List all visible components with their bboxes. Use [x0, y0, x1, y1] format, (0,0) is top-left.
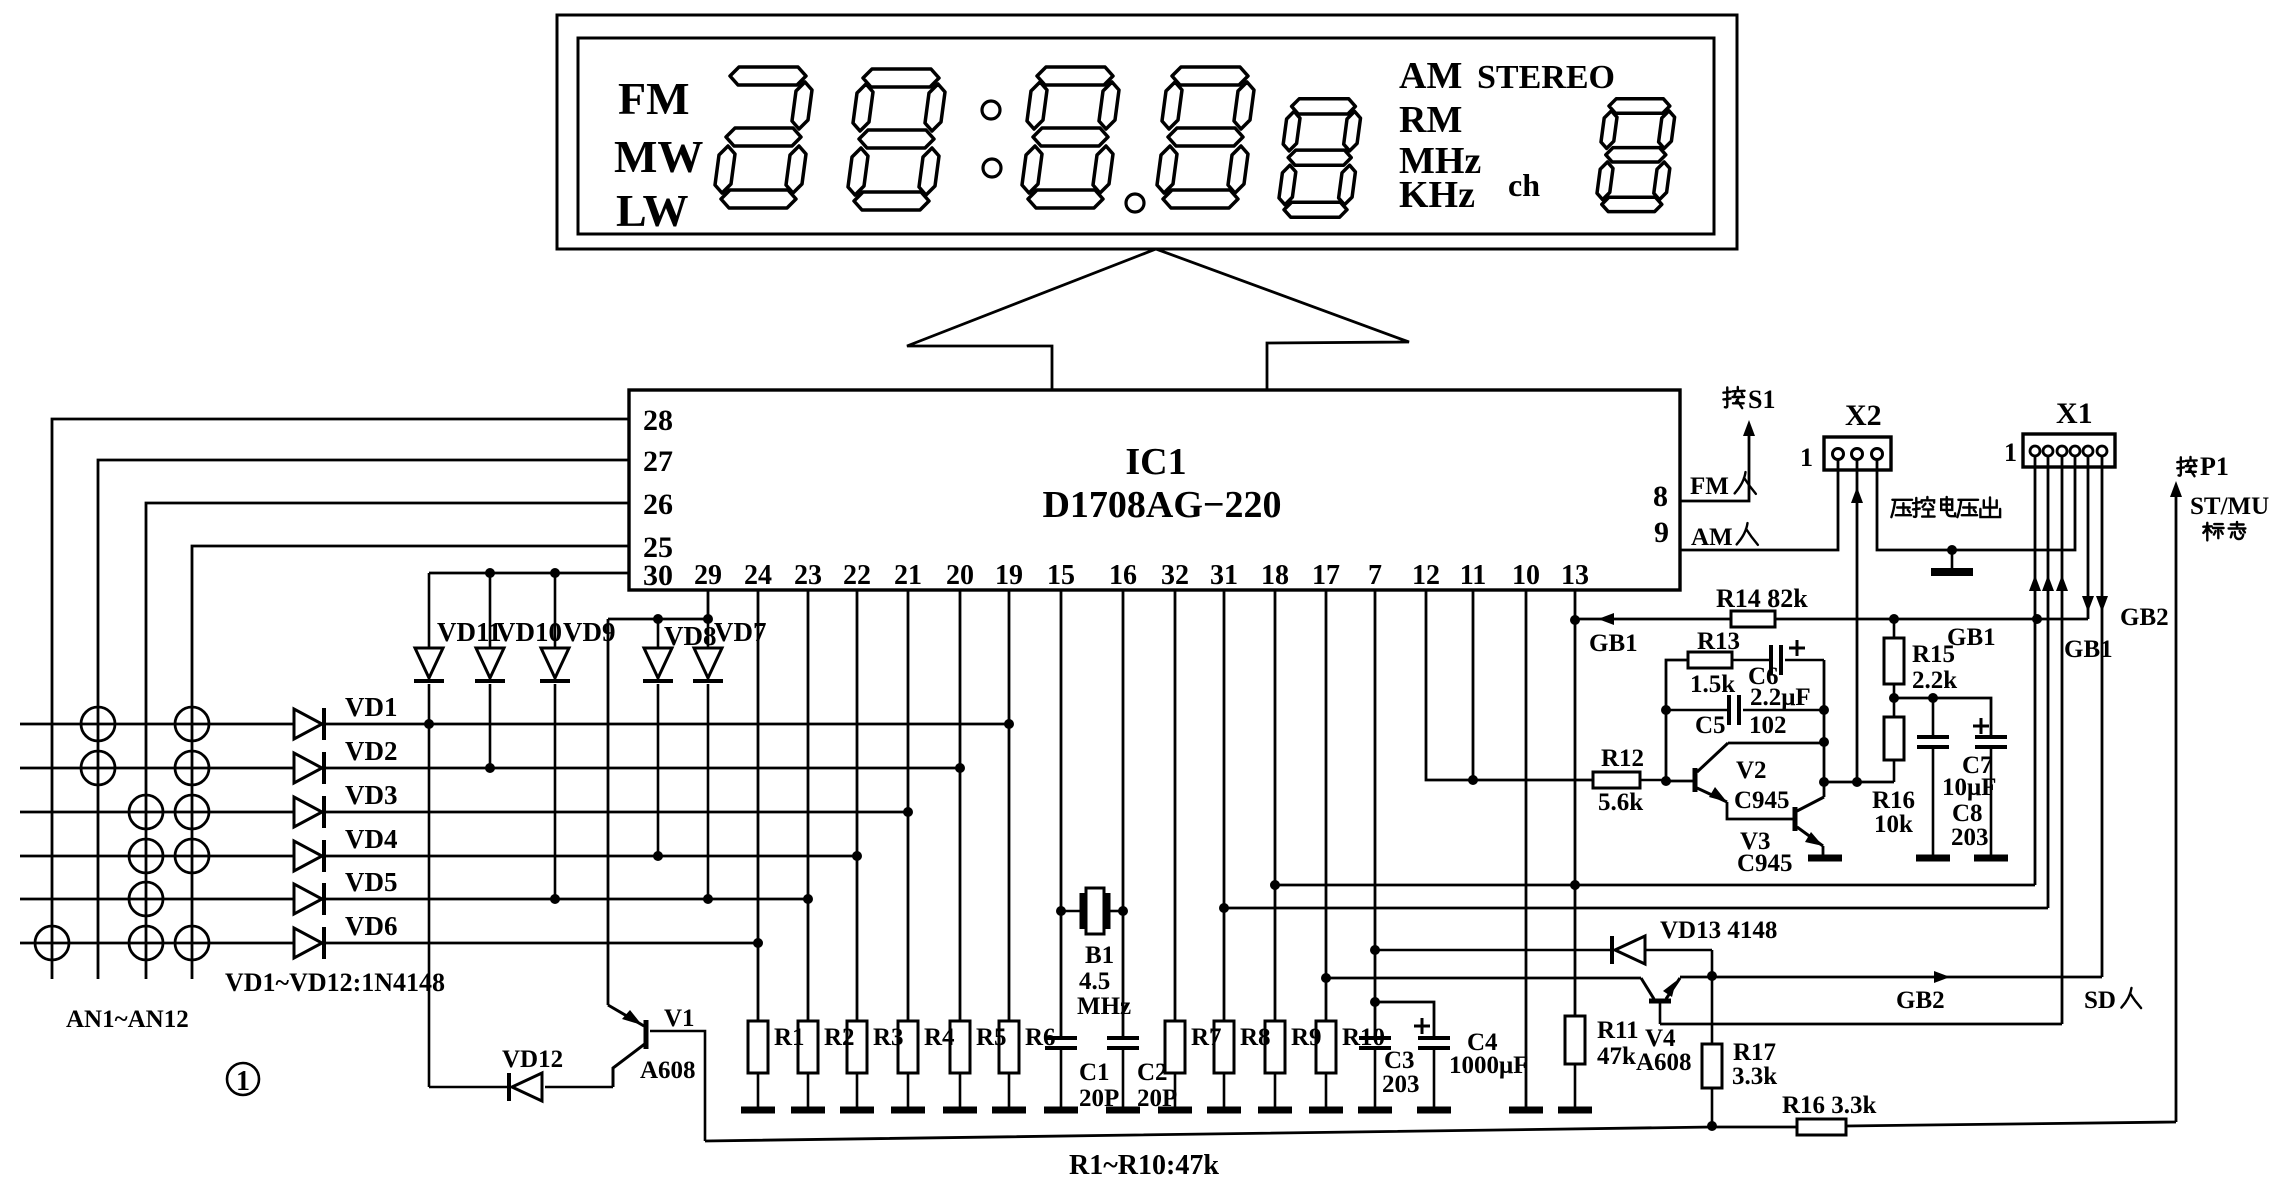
diode VD7	[707, 619, 710, 648]
ground	[791, 1107, 825, 1114]
transistor V1	[644, 1020, 649, 1049]
resistor R8	[1214, 1021, 1234, 1073]
svg-text:VD9: VD9	[563, 617, 616, 647]
wire pin 9 AM line	[1680, 459, 1838, 550]
wire pin 30 to VD9-VD11	[429, 572, 629, 575]
wire pin31 to X1 pin2	[1224, 907, 2048, 910]
resistor R11 47k	[1565, 1016, 1585, 1064]
junction	[1661, 705, 1671, 715]
svg-text:X1: X1	[2056, 397, 2093, 430]
junction	[1118, 906, 1128, 916]
svg-text:R5: R5	[976, 1024, 1007, 1051]
svg-text:R13: R13	[1697, 628, 1740, 655]
diode VD13 4148	[1375, 949, 1612, 952]
junction	[1270, 880, 1280, 890]
svg-text:V4: V4	[1645, 1025, 1676, 1052]
svg-text:VD3: VD3	[345, 780, 398, 810]
svg-text:19: 19	[995, 560, 1023, 591]
resistor R7	[1165, 1021, 1185, 1073]
svg-text:1: 1	[236, 1066, 250, 1097]
resistor R5	[950, 1021, 970, 1073]
ground	[1558, 1107, 1592, 1114]
diode VD10	[489, 573, 492, 648]
diode VD12	[429, 1086, 509, 1089]
svg-text:23: 23	[794, 560, 822, 591]
wire GB1 loop bottom	[1275, 884, 2035, 887]
svg-text:VD1~VD12:1N4148: VD1~VD12:1N4148	[225, 968, 445, 997]
svg-text:ch: ch	[1508, 167, 1540, 203]
junction	[550, 568, 560, 578]
svg-text:C945: C945	[1737, 850, 1793, 877]
svg-text:SD: SD	[2084, 987, 2116, 1014]
svg-text:2.2μF: 2.2μF	[1750, 684, 1811, 711]
svg-text:STEREO: STEREO	[1477, 59, 1615, 96]
svg-text:R12: R12	[1601, 745, 1644, 772]
ground	[1417, 1107, 1451, 1114]
wire pin 10 column	[1525, 590, 1528, 1107]
figure number 1	[227, 1063, 259, 1095]
arrow to P1	[2170, 481, 2182, 497]
wire pin 12 to R12	[1426, 590, 1593, 780]
key button AN8	[175, 839, 209, 873]
svg-text:VD5: VD5	[345, 867, 398, 897]
wire pin17 tap to V4	[1326, 977, 1641, 980]
capacitor C3 203	[1359, 1036, 1391, 1040]
key button AN11	[129, 926, 163, 960]
key matrix row 2 wire	[20, 767, 294, 770]
IC IC1 D1708AG-220 body	[629, 390, 1680, 590]
svg-text:IC1: IC1	[1125, 441, 1186, 483]
wire X1 pin3 down (SD)	[2061, 456, 2064, 1024]
svg-text:3.3k: 3.3k	[1732, 1063, 1777, 1090]
svg-text:13: 13	[1561, 560, 1589, 591]
junction	[424, 719, 434, 729]
wire pin 17 column	[1325, 590, 1328, 1021]
svg-text:B1: B1	[1085, 942, 1114, 969]
ground	[1258, 1107, 1292, 1114]
svg-text:R2: R2	[824, 1024, 855, 1051]
svg-text:C945: C945	[1734, 787, 1790, 814]
svg-text:MHz: MHz	[1077, 993, 1131, 1020]
junction	[1707, 971, 1717, 981]
junction	[955, 763, 965, 773]
key button AN10	[35, 926, 69, 960]
svg-text:8: 8	[1653, 480, 1668, 513]
svg-text:R1~R10:47k: R1~R10:47k	[1069, 1150, 1219, 1177]
junction	[1370, 997, 1380, 1007]
key button AN12	[175, 926, 209, 960]
junction	[1707, 1121, 1717, 1131]
junction	[1928, 693, 1938, 703]
junction	[1570, 880, 1580, 890]
capacitor C4 1000uF	[1414, 1025, 1430, 1028]
svg-text:31: 31	[1210, 560, 1238, 591]
svg-text:ST/MU: ST/MU	[2190, 493, 2269, 520]
svg-text:1000μF: 1000μF	[1449, 1052, 1528, 1079]
junction	[703, 614, 713, 624]
svg-text:D1708AG−220: D1708AG−220	[1042, 484, 1281, 526]
svg-text:1.5k: 1.5k	[1690, 671, 1735, 698]
ground	[1106, 1107, 1140, 1114]
wire V2 emitter to V3 base	[1727, 802, 1793, 819]
junction	[1661, 776, 1671, 786]
wire pin 16 column	[1122, 590, 1125, 1038]
svg-text:VD12: VD12	[502, 1046, 563, 1073]
wire pin 18 column	[1274, 590, 1277, 1021]
svg-text:11: 11	[1460, 560, 1486, 591]
junction	[550, 894, 560, 904]
7-segment digit 5	[1279, 99, 1361, 218]
svg-text:R17: R17	[1733, 1039, 1776, 1066]
svg-text:9: 9	[1654, 516, 1669, 549]
ground	[1358, 1107, 1392, 1114]
svg-text:A608: A608	[640, 1057, 696, 1084]
resistor R4	[898, 1021, 918, 1073]
svg-text:27: 27	[643, 445, 673, 478]
wire pin 32 column	[1174, 590, 1177, 1021]
display colon	[982, 101, 1000, 119]
junction	[653, 851, 663, 861]
junction	[1819, 705, 1829, 715]
svg-text:C8: C8	[1952, 800, 1983, 827]
diode VD6	[294, 928, 322, 958]
svg-text:AM: AM	[1399, 55, 1462, 97]
arrow X1 pin1	[2029, 575, 2041, 591]
junction	[852, 851, 862, 861]
wire X1 pin6 down (GB2)	[2101, 456, 2104, 977]
wire V2 base loop	[1666, 660, 1688, 781]
ground	[1207, 1107, 1241, 1114]
connector X2	[1824, 437, 1891, 470]
wire pin 27 to key column 2	[98, 460, 629, 979]
arrow X1 pin3	[2056, 575, 2068, 591]
wire pin 31 column	[1223, 590, 1226, 1021]
wire VD5 to pin column	[325, 898, 808, 901]
svg-text:AN1~AN12: AN1~AN12	[66, 1006, 189, 1033]
svg-text:24: 24	[744, 560, 772, 591]
svg-text:GB1: GB1	[1589, 630, 1638, 657]
ground	[1158, 1107, 1192, 1114]
wire node to C7 C8	[1894, 698, 1991, 737]
svg-text:GB2: GB2	[1896, 987, 1945, 1014]
ground	[891, 1107, 925, 1114]
svg-text:10μF: 10μF	[1942, 774, 1996, 801]
svg-text:LW: LW	[616, 185, 688, 236]
svg-text:16: 16	[1109, 560, 1137, 591]
junction	[485, 763, 495, 773]
svg-text:R7: R7	[1191, 1024, 1222, 1051]
svg-text:30: 30	[643, 559, 673, 592]
svg-text:C5: C5	[1695, 712, 1726, 739]
key button AN1	[81, 707, 115, 741]
svg-text:R16 3.3k: R16 3.3k	[1782, 1092, 1877, 1119]
wire V2 base lead	[1666, 780, 1694, 783]
wire to P1	[2175, 497, 2178, 1122]
svg-text:2.2k: 2.2k	[1912, 667, 1957, 694]
svg-text:RM: RM	[1399, 99, 1462, 141]
key button AN7	[129, 839, 163, 873]
arrow from IC1 to display	[907, 249, 1409, 390]
svg-text:17: 17	[1312, 560, 1340, 591]
key matrix row 1 wire	[20, 723, 294, 726]
diode VD1	[294, 709, 322, 739]
svg-text:29: 29	[694, 560, 722, 591]
ground	[1916, 855, 1950, 862]
wire pin 19 column	[1008, 590, 1011, 1021]
diode VD2	[294, 753, 322, 783]
svg-text:VD13 4148: VD13 4148	[1660, 917, 1777, 944]
wire pin 8 FM stub	[1680, 436, 1749, 501]
junction	[1852, 777, 1862, 787]
wire to V1 collector	[607, 619, 610, 1005]
diode VD5	[294, 884, 322, 914]
capacitor C1 20P	[1045, 1036, 1077, 1040]
wire pin 22 column	[856, 590, 859, 1021]
wire bottom bus	[705, 1127, 1797, 1141]
arrow GB2	[1934, 971, 1950, 983]
ground	[992, 1107, 1026, 1114]
resistor R10	[1316, 1021, 1336, 1073]
junction	[1819, 737, 1829, 747]
arrow X1 pin6	[2096, 596, 2108, 612]
capacitor C6 2.2uF	[1732, 659, 1771, 662]
junction	[1947, 545, 1957, 555]
svg-text:4.5: 4.5	[1079, 968, 1110, 995]
capacitor C7 10uF	[1973, 725, 1989, 728]
resistor R2	[798, 1021, 818, 1073]
label 接P1	[2177, 457, 2196, 476]
svg-text:C3: C3	[1384, 1047, 1415, 1074]
resistor R12 5.6k	[1593, 772, 1640, 788]
svg-text:C1: C1	[1079, 1059, 1110, 1086]
junction	[2032, 614, 2042, 624]
resistor R17 3.3k	[1711, 976, 1714, 1044]
resistor R16 10k	[1884, 717, 1904, 760]
ground	[1044, 1107, 1078, 1114]
ground	[1509, 1107, 1543, 1114]
wire pin 7 column	[1374, 590, 1377, 1038]
junction	[1321, 973, 1331, 983]
svg-text:KHz: KHz	[1399, 174, 1475, 216]
wire GB1 rail	[1575, 618, 1731, 621]
wire VD2 to pin column	[325, 767, 960, 770]
svg-text:5.6k: 5.6k	[1598, 789, 1643, 816]
wire pin 24 column	[757, 590, 760, 1021]
svg-text:20P: 20P	[1137, 1085, 1177, 1112]
arrow X1 pin5	[2082, 596, 2094, 612]
junction	[803, 894, 813, 904]
resistor R3	[847, 1021, 867, 1073]
svg-text:10: 10	[1512, 560, 1540, 591]
svg-text:X2: X2	[1845, 399, 1882, 432]
7-segment digit 4	[1157, 67, 1254, 208]
wire X2 pin3 to ground and X1 pin4	[1877, 456, 2075, 550]
display panel outer frame	[557, 15, 1737, 249]
wire pin 15 column	[1060, 590, 1063, 1038]
ground	[1808, 855, 1842, 862]
arrow GB1	[1598, 613, 1614, 625]
junction	[1056, 906, 1066, 916]
junction	[1570, 615, 1580, 625]
ground	[840, 1107, 874, 1114]
label 压控电压出	[1891, 500, 1912, 517]
svg-text:28: 28	[643, 404, 673, 437]
7-segment digit 2	[848, 69, 945, 210]
arrow X1 pin2	[2042, 575, 2054, 591]
svg-text:1: 1	[2004, 438, 2017, 467]
svg-text:26: 26	[643, 488, 673, 521]
wire V2 collector	[1728, 742, 1824, 745]
diode VD9	[554, 573, 557, 648]
junction	[1370, 945, 1380, 955]
junction	[1468, 775, 1478, 785]
svg-text:GB2: GB2	[2120, 604, 2169, 631]
resistor R13 1.5k	[1688, 652, 1732, 668]
7-segment digit 3	[1022, 67, 1119, 208]
svg-text:FM: FM	[1690, 473, 1729, 500]
7-segment digit 1	[715, 67, 812, 208]
resistor R1	[748, 1021, 768, 1073]
capacitor C2 20P	[1107, 1036, 1139, 1040]
wire VD3 to pin column	[325, 811, 908, 814]
wire VD1 to pin column	[325, 723, 1009, 726]
svg-text:VD2: VD2	[345, 736, 398, 766]
wire GB1 rail right	[1775, 618, 2088, 621]
svg-text:VD4: VD4	[345, 824, 398, 854]
wire VD6 to pin column	[325, 942, 758, 945]
svg-text:7: 7	[1368, 560, 1382, 591]
crystal B1 4.5MHz	[1061, 910, 1082, 913]
junction	[1889, 693, 1899, 703]
arrow X2 pin2	[1851, 487, 1863, 503]
resistor R6	[999, 1021, 1019, 1073]
wire pin 13 column	[1574, 590, 1577, 1016]
svg-text:VD8: VD8	[664, 621, 717, 651]
svg-text:GB1: GB1	[1947, 624, 1996, 651]
wire pin 29 drop	[707, 590, 710, 619]
capacitor C8 203	[1932, 698, 1935, 737]
junction	[653, 614, 663, 624]
svg-text:21: 21	[894, 560, 922, 591]
svg-text:GB1: GB1	[2064, 636, 2113, 663]
svg-text:203: 203	[1382, 1071, 1420, 1098]
wire C6 to collector	[1823, 660, 1826, 797]
wire collector out	[1824, 781, 1894, 784]
svg-text:A608: A608	[1636, 1049, 1692, 1076]
svg-text:R16: R16	[1872, 787, 1915, 814]
arrow to S1	[1743, 420, 1755, 436]
svg-text:VD10: VD10	[496, 617, 562, 647]
junction	[1889, 614, 1899, 624]
diode VD4	[294, 841, 322, 871]
connector X1	[2023, 434, 2115, 467]
wire pin 23 column	[807, 590, 810, 1021]
ground	[741, 1107, 775, 1114]
wire GB2 line	[1680, 976, 2102, 979]
ground	[943, 1107, 977, 1114]
key button AN6	[175, 795, 209, 829]
junction	[485, 568, 495, 578]
wire VD4 to pin column	[325, 855, 857, 858]
ground	[1974, 855, 2008, 862]
wire pin 25 to key column 4	[192, 546, 629, 979]
wire X2 pin2 down	[1856, 459, 1859, 782]
wire pin 26 to key column 3	[146, 503, 629, 979]
resistor R15 2.2k	[1893, 619, 1896, 638]
wire pin 21 column	[907, 590, 910, 1021]
key button AN9	[129, 882, 163, 916]
display panel inner frame	[578, 38, 1714, 234]
svg-text:18: 18	[1261, 560, 1289, 591]
wire X1 pin1 down	[2034, 456, 2037, 885]
svg-text:15: 15	[1047, 560, 1075, 591]
label 接S1	[1723, 387, 1744, 408]
key button AN4	[175, 751, 209, 785]
junction	[1819, 777, 1829, 787]
svg-text:20: 20	[946, 560, 974, 591]
junction	[903, 807, 913, 817]
capacitor C5 102	[1666, 709, 1729, 712]
svg-text:10k: 10k	[1874, 811, 1913, 838]
svg-text:MW: MW	[614, 131, 703, 182]
wire pin 20 column	[959, 590, 962, 1021]
key matrix row 6 wire	[20, 942, 294, 945]
svg-text:47k: 47k	[1597, 1043, 1636, 1070]
resistor R16 3.3k	[1797, 1119, 1846, 1135]
transistor V4	[1649, 999, 1671, 1004]
svg-text:VD1: VD1	[345, 692, 398, 722]
ground	[1951, 550, 1954, 570]
svg-text:C2: C2	[1137, 1059, 1168, 1086]
svg-text:V1: V1	[664, 1005, 695, 1032]
wire pin7 to C4	[1375, 1002, 1434, 1038]
transistor V3	[1793, 807, 1798, 831]
key matrix row 3 wire	[20, 811, 294, 814]
wire X1 pin2 down	[2047, 456, 2050, 908]
svg-text:1: 1	[1800, 443, 1813, 472]
wire V3 emitter	[1822, 846, 1825, 856]
junction	[753, 938, 763, 948]
wire SD line	[1660, 1023, 2062, 1026]
display decimal point	[1126, 194, 1144, 212]
svg-text:VD11: VD11	[437, 617, 502, 647]
key button AN3	[81, 751, 115, 785]
svg-text:R14 82k: R14 82k	[1716, 584, 1808, 613]
key button AN5	[129, 795, 163, 829]
resistor R9	[1265, 1021, 1285, 1073]
wire bus to P1 riser	[1846, 1122, 2176, 1126]
wire pin 29 branch to V1	[608, 618, 708, 621]
diode VD8	[657, 619, 660, 648]
key matrix row 5 wire	[20, 898, 294, 901]
svg-text:VD6: VD6	[345, 911, 398, 941]
svg-text:R1: R1	[774, 1024, 805, 1051]
diode VD11	[428, 573, 431, 648]
wire pin 11 column	[1472, 590, 1475, 780]
transistor V2	[1693, 768, 1698, 792]
svg-text:R11: R11	[1597, 1017, 1639, 1044]
key matrix row 4 wire	[20, 855, 294, 858]
svg-text:32: 32	[1161, 560, 1189, 591]
diode VD3	[294, 797, 322, 827]
svg-text:22: 22	[843, 560, 871, 591]
junction	[1219, 903, 1229, 913]
key button AN2	[175, 707, 209, 741]
wire X1 pin5 down (GB1)	[2087, 456, 2090, 619]
resistor R14 82k	[1731, 611, 1775, 627]
svg-text:V2: V2	[1736, 757, 1767, 784]
7-segment digit 6	[1597, 99, 1675, 212]
